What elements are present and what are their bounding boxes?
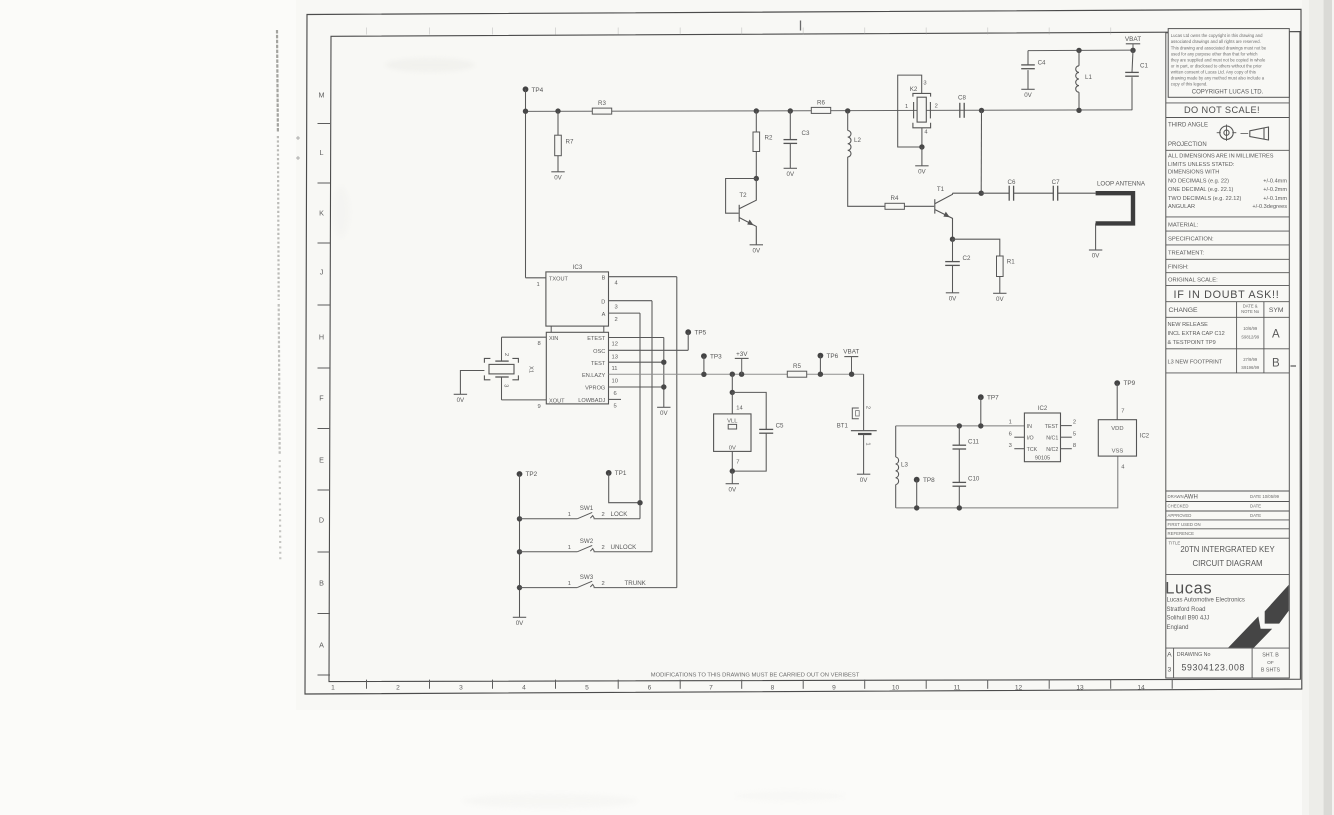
svg-text:T1: T1 — [937, 186, 945, 193]
svg-text:or in part, or disclosed to ot: or in part, or disclosed to others witho… — [1171, 64, 1263, 69]
svg-text:C6: C6 — [1008, 179, 1016, 186]
junction C11 top — [957, 423, 962, 428]
wire: top rail to L1 — [1078, 50, 1080, 65]
svg-text:A: A — [1272, 329, 1280, 341]
wire: IC3 pin 1 stub — [526, 277, 546, 279]
wire: L3 / C11 / TP7 to IC2 pin 1 — [896, 425, 1025, 427]
svg-text:12: 12 — [1015, 684, 1023, 691]
svg-text:9: 9 — [538, 404, 541, 410]
svg-text:1: 1 — [568, 512, 571, 518]
svg-text:7: 7 — [709, 684, 713, 691]
IC U: IC3 transmitter (upper section) — [546, 264, 609, 326]
inner drawing border — [329, 32, 1300, 682]
wire: TP1 to LOCK line — [609, 473, 640, 503]
title block horizontal separators — [1166, 103, 1290, 648]
wire: top rail to C4 — [1027, 51, 1029, 65]
svg-text:TEST: TEST — [1045, 424, 1059, 430]
svg-text:N/C1: N/C1 — [1046, 436, 1058, 442]
svg-text:ONE DECIMAL (e.g. 22.1): ONE DECIMAL (e.g. 22.1) — [1168, 187, 1234, 193]
drawing number row — [1167, 648, 1280, 678]
junction C8 / L1 branch — [979, 108, 984, 113]
svg-text:VBAT: VBAT — [843, 349, 859, 356]
wire: IC2 pin 5 stub — [1061, 436, 1072, 438]
wire: VBAT top rail — [1028, 49, 1133, 52]
svg-text:59304123.008: 59304123.008 — [1182, 662, 1245, 672]
junction TP1 / LOCK line — [637, 500, 642, 505]
junction C3 top — [788, 108, 793, 113]
wire: TP9 to VDD pin 7 — [1116, 383, 1118, 420]
svg-text:written consent of Lucas Ltd.: written consent of Lucas Ltd. Any copy o… — [1171, 70, 1256, 75]
transistor T2 (diode-connected NPN) — [739, 179, 756, 245]
wire: antenna to ground — [1095, 223, 1097, 250]
junction T2 collector / base loop — [754, 176, 759, 181]
terminal VBAT (top) — [1125, 36, 1141, 51]
svg-text:0V: 0V — [860, 477, 868, 484]
junction VBAT / rail — [849, 372, 854, 377]
svg-text:TP8: TP8 — [923, 477, 935, 484]
ground below T2 emitter — [750, 245, 763, 255]
svg-text:SW2: SW2 — [580, 538, 594, 545]
svg-text:MODIFICATIONS TO THIS DRAWING: MODIFICATIONS TO THIS DRAWING MUST BE CA… — [651, 672, 860, 678]
svg-text:0V: 0V — [729, 486, 737, 493]
svg-text:OSC: OSC — [593, 349, 605, 355]
svg-text:S9812/99: S9812/99 — [1241, 334, 1260, 339]
test point TP8 — [914, 477, 935, 484]
svg-text:R4: R4 — [891, 195, 899, 202]
svg-text:27/9/99: 27/9/99 — [1243, 357, 1258, 362]
svg-text:C7: C7 — [1052, 179, 1060, 186]
test point TP3 — [701, 353, 722, 360]
Lucas flash logo lower stroke — [1228, 616, 1272, 647]
wire: C5 to VLL pin 7 node — [732, 433, 766, 471]
svg-text:OF: OF — [1267, 660, 1274, 666]
junction TP3 / rail — [701, 372, 706, 377]
inductor L2 — [848, 131, 862, 157]
svg-text:ALL DIMENSIONS ARE IN MILLIMET: ALL DIMENSIONS ARE IN MILLIMETRES — [1168, 154, 1274, 160]
svg-text:IC3: IC3 — [573, 264, 583, 271]
resistor R7 — [555, 135, 574, 156]
capacitor C2 — [945, 255, 971, 266]
svg-text:TP6: TP6 — [827, 353, 839, 360]
wire: junction to C6 — [981, 192, 1009, 194]
svg-text:LOWBADJ: LOWBADJ — [578, 398, 605, 404]
svg-text:5: 5 — [1073, 431, 1076, 437]
IC2 coil interface block (VDD/VSS) — [1098, 420, 1150, 456]
svg-text:used for any purpose other tha: used for any purpose other than that for… — [1171, 51, 1258, 56]
svg-text:8: 8 — [1073, 443, 1076, 449]
junction VBAT / C1 — [1130, 48, 1135, 53]
svg-text:0V: 0V — [996, 296, 1004, 303]
junction VLL pin 7 / C5 / ground — [730, 468, 735, 473]
svg-text:C11: C11 — [968, 438, 979, 445]
junction L1 top — [1076, 48, 1081, 53]
svg-text:2: 2 — [1073, 420, 1076, 426]
capacitor C7 — [1052, 179, 1060, 201]
svg-text:1: 1 — [537, 282, 540, 288]
ground below R1 — [993, 293, 1006, 303]
resistor R3 — [592, 100, 611, 114]
wire: R2 to T2 collector node — [755, 152, 757, 179]
svg-text:NEW RELEASE: NEW RELEASE — [1168, 322, 1209, 328]
capacitor C3 — [784, 130, 810, 143]
wire: IC2 pin 8 stub — [1061, 448, 1072, 450]
svg-text:0V: 0V — [753, 247, 761, 254]
wire: VLL pin 14 — [731, 392, 733, 414]
wire: EN.LAZY / +3V rail — [609, 373, 864, 375]
wire: pin A(2) to SW1 — [639, 313, 641, 519]
change row A — [1168, 322, 1280, 346]
ground below R7 — [551, 172, 564, 182]
svg-text:1: 1 — [1009, 420, 1012, 426]
wire: IC3 pin 3 (D) stub — [609, 300, 653, 302]
svg-text:J: J — [320, 268, 324, 277]
junction TP6 / rail — [818, 372, 823, 377]
svg-text:+/-0.2mm: +/-0.2mm — [1263, 187, 1287, 193]
ground below K2 — [915, 166, 928, 176]
junction VLL pin 14 / C5 — [730, 390, 735, 395]
svg-text:APPROVED: APPROVED — [1168, 513, 1192, 518]
wire: K2 case pin 3 loop — [898, 75, 922, 147]
svg-text:LOOP ANTENNA: LOOP ANTENNA — [1097, 181, 1146, 188]
svg-text:3: 3 — [1168, 667, 1172, 674]
wire: K2 case pin 4 to ground node — [921, 128, 923, 147]
wire: emitter node to R1 — [953, 239, 1000, 256]
wire: rail down to L3 — [895, 426, 897, 457]
svg-text:13: 13 — [1076, 684, 1084, 691]
svg-text:Solihull B90 4JJ: Solihull B90 4JJ — [1167, 616, 1210, 622]
svg-text:X1: X1 — [528, 366, 534, 373]
svg-text:TRUNK: TRUNK — [625, 580, 647, 587]
wire: L3 to bottom rail — [895, 485, 897, 508]
svg-text:0V: 0V — [457, 397, 465, 404]
svg-text:0V: 0V — [1024, 92, 1032, 99]
svg-text:REFERENCE: REFERENCE — [1168, 531, 1195, 536]
junction L2 top — [845, 108, 850, 113]
ground below C3 — [784, 168, 797, 178]
svg-text:NOTE No: NOTE No — [1241, 309, 1260, 314]
wire: X1 case to ground — [460, 371, 484, 395]
resistor R6 — [811, 99, 830, 113]
junction TP8 / bottom rail — [914, 505, 919, 510]
svg-text:EN.LAZY: EN.LAZY — [582, 373, 606, 379]
svg-text:7: 7 — [1121, 408, 1124, 414]
svg-text:DATE: DATE — [1250, 513, 1261, 518]
svg-text:3: 3 — [503, 384, 509, 387]
svg-text:R2: R2 — [765, 135, 773, 142]
junction TEST / ground line — [661, 360, 666, 365]
test point TP2 — [517, 471, 538, 478]
wire: X1 to XOUT — [501, 377, 503, 400]
wire: emitter node to C2 — [952, 239, 954, 261]
top margin ruler ticks — [367, 28, 1111, 35]
svg-text:copy of this legend.: copy of this legend. — [1171, 82, 1208, 87]
inductor L1 — [1076, 66, 1093, 92]
crystal X1 — [484, 358, 518, 379]
change row B — [1168, 357, 1297, 370]
svg-text:2: 2 — [396, 684, 400, 691]
projection symbol: target — [1217, 125, 1237, 141]
wire: pin D(3) to SW2 — [651, 301, 653, 552]
wire: rail to R2 — [755, 111, 757, 132]
resistor R2 — [753, 132, 773, 152]
svg-text:TP4: TP4 — [532, 87, 544, 94]
svg-text:8: 8 — [771, 684, 775, 691]
border grid reference letters, left margin — [319, 91, 325, 650]
svg-text:England: England — [1167, 625, 1189, 631]
wire: rail to C3 — [789, 111, 791, 140]
wire: XIN to X1 — [501, 337, 503, 361]
crystal resonator K2 — [913, 93, 931, 127]
svg-text:C3: C3 — [802, 130, 810, 137]
terminal +3V — [735, 351, 749, 374]
wire: C8 node down to antenna row — [980, 111, 982, 194]
svg-text:VDD: VDD — [1111, 426, 1123, 432]
svg-text:S9196/99: S9196/99 — [1241, 365, 1260, 370]
svg-text:AWH: AWH — [1184, 495, 1198, 501]
svg-text:C5: C5 — [776, 422, 784, 429]
test point TP4 — [523, 86, 544, 93]
Lucas flash logo upper stroke — [1265, 585, 1289, 624]
svg-text:0V: 0V — [554, 174, 562, 181]
capacitor C8 — [958, 95, 966, 118]
wire: C4 to ground — [1027, 70, 1029, 89]
stray scan marks left margin — [296, 136, 300, 160]
wire: IC3 pin 4 (B) stub — [609, 276, 677, 278]
svg-text:T2: T2 — [739, 192, 747, 199]
wire: C10 to bottom rail — [958, 486, 960, 508]
svg-text:0V: 0V — [918, 168, 926, 175]
svg-text:+/-0.1mm: +/-0.1mm — [1263, 196, 1287, 202]
ground ETEST line — [657, 407, 670, 417]
wire: K2 ground node to 0V — [921, 147, 923, 166]
svg-text:they are supplied and must not: they are supplied and must not be copied… — [1171, 57, 1266, 62]
wire: TP7 to rail — [980, 397, 982, 426]
wire: C1 to main rail — [1131, 77, 1133, 110]
svg-text:C1: C1 — [1140, 62, 1148, 69]
wire: main VBAT supply rail (top horizontal) — [526, 110, 1133, 112]
loop antenna — [1096, 181, 1146, 224]
svg-text:1: 1 — [865, 442, 871, 445]
svg-text:TP1: TP1 — [615, 470, 627, 477]
svg-text:6: 6 — [648, 684, 652, 691]
svg-text:K: K — [319, 209, 324, 218]
svg-text:& TESTPOINT TP9: & TESTPOINT TP9 — [1168, 340, 1216, 346]
inductor L3 — [896, 457, 909, 485]
svg-text:5: 5 — [585, 684, 589, 691]
svg-text:TP3: TP3 — [710, 353, 722, 360]
wire: C2 to ground — [952, 265, 954, 292]
svg-text:TCK: TCK — [1027, 447, 1038, 453]
svg-text:2: 2 — [935, 104, 938, 110]
junction SW2 common — [517, 549, 522, 554]
wire: L1 to main rail — [1078, 92, 1080, 110]
wire: rail down to BT1 — [863, 374, 865, 430]
junction R2 top — [754, 108, 759, 113]
svg-text:This drawing and associated dr: This drawing and associated drawings mus… — [1171, 45, 1267, 50]
title row — [1169, 541, 1276, 568]
drawn / checked / approved rows — [1168, 494, 1280, 536]
svg-text:8: 8 — [538, 341, 541, 347]
svg-text:FIRST USED ON: FIRST USED ON — [1168, 522, 1201, 527]
svg-text:A: A — [319, 641, 324, 650]
svg-text:10/6/99: 10/6/99 — [1243, 326, 1258, 331]
svg-text:TXOUT: TXOUT — [549, 277, 569, 283]
svg-text:MATERIAL:: MATERIAL: — [1168, 223, 1199, 229]
svg-text:SYM: SYM — [1269, 307, 1284, 314]
svg-text:R1: R1 — [1007, 259, 1015, 266]
svg-text:B SHTS: B SHTS — [1261, 667, 1281, 673]
svg-text:DIMENSIONS WITH: DIMENSIONS WITH — [1168, 170, 1219, 176]
switch SW1 — [520, 505, 641, 519]
svg-text:13: 13 — [612, 354, 618, 360]
svg-text:UNLOCK: UNLOCK — [611, 544, 638, 551]
svg-text:drawing made by any method mus: drawing made by any method must also inc… — [1171, 76, 1265, 81]
svg-text:ETEST: ETEST — [587, 336, 606, 342]
svg-text:IC2: IC2 — [1038, 406, 1048, 412]
ground below C2 — [946, 293, 959, 303]
ground below switch common — [513, 617, 526, 627]
transistor T1 (NPN) — [935, 193, 953, 239]
svg-text:SW1: SW1 — [580, 505, 594, 512]
wire: rail to L2 — [847, 111, 849, 131]
svg-text:DATE 10/05/99: DATE 10/05/99 — [1250, 494, 1280, 499]
ground below C4 — [1021, 89, 1034, 99]
svg-text:+/-0.3degrees: +/-0.3degrees — [1252, 204, 1287, 210]
switch SW2 — [520, 538, 653, 552]
title block frame — [1166, 33, 1290, 678]
wire: IC2 pin 2 stub — [1061, 425, 1072, 427]
svg-text:3: 3 — [923, 81, 926, 87]
svg-text:D: D — [601, 299, 605, 305]
svg-text:DATE &: DATE & — [1243, 303, 1258, 308]
wire: IC2 pin 3 stub — [1014, 448, 1024, 450]
IC3 lower section — [546, 326, 608, 405]
svg-text:F: F — [319, 394, 324, 403]
svg-text:10: 10 — [892, 684, 900, 691]
svg-text:CIRCUIT DIAGRAM: CIRCUIT DIAGRAM — [1192, 559, 1262, 568]
wire: rail to VLL node — [731, 374, 733, 392]
wire: bottom rail to IC2 VSS pin 4 — [896, 456, 1118, 508]
wire: L2 to R4 — [848, 157, 886, 206]
svg-text:CHECKED: CHECKED — [1168, 504, 1189, 509]
svg-text:VLL: VLL — [727, 418, 738, 424]
svg-text:VPROG: VPROG — [585, 386, 605, 392]
svg-text:2: 2 — [602, 512, 605, 518]
svg-text:IF IN DOUBT ASK!!: IF IN DOUBT ASK!! — [1174, 289, 1280, 301]
svg-text:FINISH:: FINISH: — [1168, 265, 1189, 271]
copyright legend box — [1168, 29, 1289, 98]
svg-text:VBAT: VBAT — [1125, 36, 1141, 43]
wire: IC3 pin 5 (LOWBADJ) stub — [609, 398, 622, 400]
svg-text:C2: C2 — [963, 255, 971, 262]
junction +3V — [739, 372, 744, 377]
test point TP7 — [978, 394, 999, 401]
wire: VLL pin 7 — [731, 451, 733, 471]
wire: TP6 to rail — [819, 356, 821, 375]
capacitor C11 — [953, 438, 980, 449]
svg-text:1: 1 — [568, 545, 571, 551]
svg-text:2: 2 — [865, 406, 871, 409]
svg-text:0V: 0V — [787, 171, 795, 178]
svg-text:0V: 0V — [1092, 253, 1100, 260]
capacitor C4 — [1021, 59, 1046, 68]
svg-text:CHANGE: CHANGE — [1169, 307, 1199, 314]
wire: C11 to C10 — [958, 449, 960, 482]
svg-text:XIN: XIN — [549, 336, 558, 342]
wire: IC3 pin 2 (A) stub — [609, 312, 641, 314]
svg-text:SW3: SW3 — [580, 574, 594, 581]
capacitor C1 — [1125, 62, 1148, 76]
ground below VLL — [726, 484, 739, 494]
ground below loop antenna — [1089, 250, 1102, 260]
wire: pin B(4) to SW3 — [676, 277, 678, 588]
svg-text:TWO DECIMALS (e.g. 22.12): TWO DECIMALS (e.g. 22.12) — [1168, 196, 1241, 202]
svg-text:LIMITS UNLESS STATED:: LIMITS UNLESS STATED: — [1168, 162, 1235, 168]
IC VLL (regulator block) — [714, 414, 751, 452]
svg-text:0V: 0V — [660, 410, 668, 417]
test point TP5 — [685, 329, 706, 336]
svg-text:SHT. B: SHT. B — [1262, 653, 1279, 659]
svg-text:6: 6 — [1009, 431, 1012, 437]
junction antenna row — [979, 191, 984, 196]
wire: rail to C11 — [958, 426, 960, 445]
svg-text:TP5: TP5 — [695, 329, 707, 336]
wire: IC3 pin 9 (XOUT) stub — [502, 399, 547, 401]
resistor R4 — [885, 195, 904, 209]
svg-text:6: 6 — [614, 391, 617, 397]
left margin ruler ticks — [318, 124, 331, 676]
capacitor C10 — [953, 475, 980, 486]
svg-text:2: 2 — [503, 353, 509, 356]
svg-text:PROJECTION: PROJECTION — [1168, 142, 1207, 148]
resistor R1 — [997, 256, 1016, 277]
wire: TP5 to OSC — [687, 332, 689, 350]
outer sheet border — [305, 9, 1302, 694]
svg-text:0V: 0V — [729, 445, 736, 451]
wire: IC3 pin 11 (TEST) stub — [609, 361, 664, 363]
junction VLL tap — [730, 372, 735, 377]
svg-text:BT1: BT1 — [837, 423, 849, 429]
svg-text:TREATMENT:: TREATMENT: — [1168, 251, 1204, 257]
svg-text:A: A — [1167, 652, 1172, 659]
border grid reference numbers, bottom margin — [331, 684, 1145, 691]
svg-text:14: 14 — [736, 405, 743, 411]
IC2 transponder chip (90105) — [1024, 406, 1060, 462]
svg-text:Stratford Road: Stratford Road — [1167, 607, 1206, 613]
svg-text:L3: L3 — [901, 462, 908, 469]
svg-text:7: 7 — [736, 459, 739, 465]
resistor R5 — [787, 363, 806, 377]
svg-text:R7: R7 — [566, 139, 574, 146]
terminal VBAT (battery side) — [843, 349, 859, 375]
svg-text:D: D — [319, 516, 324, 525]
svg-text:E: E — [319, 456, 324, 465]
change table header — [1169, 302, 1284, 373]
svg-text:M: M — [319, 91, 325, 100]
svg-text:TP2: TP2 — [526, 471, 538, 478]
svg-text:L3 NEW FOOTPRINT: L3 NEW FOOTPRINT — [1168, 359, 1223, 365]
wire: node to C5 — [732, 392, 766, 429]
svg-text:R6: R6 — [817, 99, 825, 106]
wire: C6 to C7 — [1014, 192, 1054, 194]
wire: TP3 to EN.LAZY rail — [703, 356, 705, 374]
svg-text:ORIGINAL SCALE:: ORIGINAL SCALE: — [1168, 278, 1218, 284]
wire: IC3 pin 8 (XIN) stub — [502, 336, 547, 338]
wire: TP8 to bottom rail — [916, 480, 918, 508]
svg-text:NO DECIMALS (e.g. 22): NO DECIMALS (e.g. 22) — [1168, 179, 1229, 185]
svg-text:XOUT: XOUT — [549, 399, 565, 405]
wire: IC2 pin 6 stub — [1014, 436, 1024, 438]
